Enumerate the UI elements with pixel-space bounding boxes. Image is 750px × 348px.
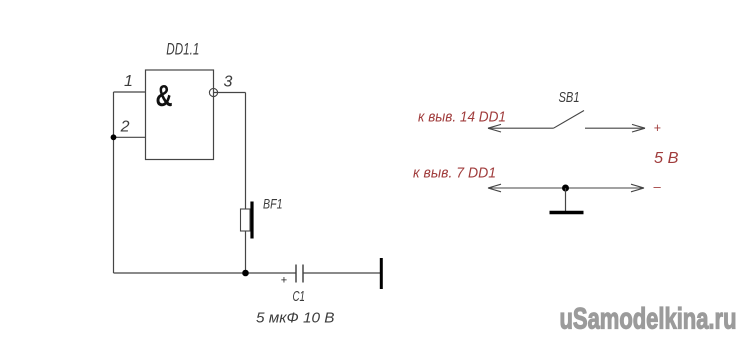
svg-text:SB1: SB1	[559, 90, 580, 106]
svg-text:2: 2	[120, 119, 130, 136]
svg-text:+: +	[654, 121, 661, 135]
svg-text:5 мкФ 10 В: 5 мкФ 10 В	[256, 309, 335, 326]
switch SB1 blade	[554, 111, 585, 129]
ground bar	[550, 211, 584, 215]
wire pin2 horizontal	[114, 136, 146, 138]
junction dot pin2	[111, 134, 117, 140]
junction dot bottom	[242, 270, 249, 277]
inverter bubble pin3	[209, 88, 217, 96]
capacitor C1 plates	[296, 265, 303, 283]
ground stem	[565, 188, 567, 211]
wire capacitor to electrode	[303, 272, 380, 274]
svg-text:BF1: BF1	[263, 196, 283, 212]
junction dot ground	[562, 185, 569, 192]
sensor electrode bar	[380, 258, 383, 289]
wire bottom horizontal	[114, 272, 297, 274]
svg-text:uSamodelkina.ru: uSamodelkina.ru	[560, 303, 737, 336]
buzzer BF1	[241, 202, 253, 239]
wire minus rail with arrowheads	[488, 184, 644, 192]
svg-text:+: +	[281, 274, 287, 286]
svg-text:–: –	[654, 179, 662, 194]
svg-text:к выв. 14 DD1: к выв. 14 DD1	[418, 108, 506, 125]
svg-text:&: &	[156, 78, 173, 113]
op-amp gate DD1.1 body	[146, 70, 214, 160]
wire plus rail right segment with arrowhead	[585, 124, 645, 132]
svg-text:3: 3	[224, 74, 233, 91]
wire pin1 horizontal	[114, 91, 146, 93]
wire output vertical	[245, 93, 247, 274]
svg-text:DD1.1: DD1.1	[166, 40, 199, 59]
svg-text:5 В: 5 В	[654, 150, 679, 167]
wire output horizontal	[214, 92, 246, 94]
wire left vertical feedback	[113, 92, 115, 273]
svg-text:1: 1	[124, 73, 133, 90]
svg-text:к выв. 7 DD1: к выв. 7 DD1	[413, 164, 496, 181]
wire plus rail left segment with arrowhead	[488, 124, 554, 132]
svg-text:C1: C1	[293, 289, 306, 305]
